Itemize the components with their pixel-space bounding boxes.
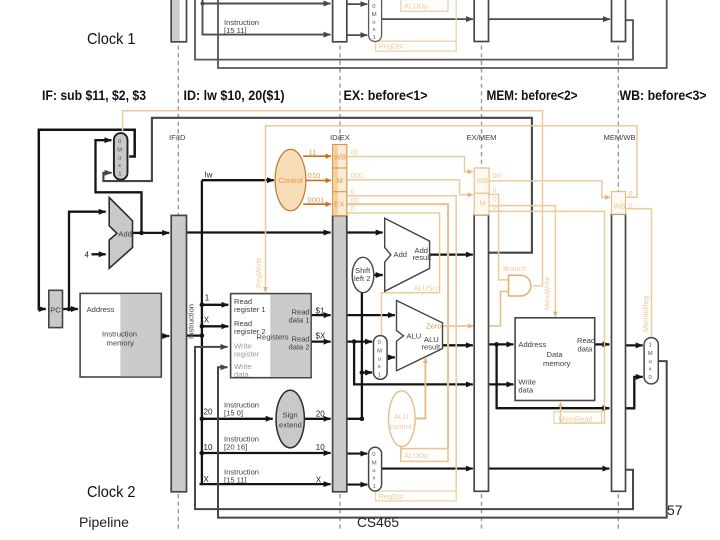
svg-text:data: data bbox=[578, 345, 594, 354]
svg-text:u: u bbox=[372, 468, 375, 474]
svg-text:ID/EX: ID/EX bbox=[330, 133, 350, 142]
register ID/EX bottom piece (upper) bbox=[333, 0, 347, 42]
wire: instruction [20-16] to ID/EX (upper) bbox=[202, 3, 331, 5]
svg-text:Add: Add bbox=[118, 229, 132, 238]
wire: read data 1 from ID/EX to ALU bbox=[347, 314, 395, 316]
wire: PCSrc from AND gate to PCSrc mux select bbox=[123, 111, 543, 286]
wire: MemRead control to data memory bottom bbox=[489, 211, 604, 423]
register file bbox=[231, 294, 312, 379]
shift left 2 oval bbox=[352, 257, 374, 292]
node: Add output junction bbox=[139, 231, 144, 236]
svg-text:Instruction: Instruction bbox=[187, 304, 196, 339]
wire: Branch control from EX/MEM to AND gate bbox=[489, 194, 509, 280]
wire: Control to ID/EX EX bbox=[303, 203, 331, 205]
svg-text:X: X bbox=[204, 315, 210, 324]
svg-text:Clock 1: Clock 1 bbox=[87, 31, 136, 48]
node: imm junction bbox=[360, 417, 365, 422]
wire: constant 4 into Add bbox=[92, 253, 106, 255]
svg-text:[15 0]: [15 0] bbox=[224, 409, 243, 418]
wire: PC value up to Add bbox=[69, 212, 106, 309]
svg-text:Address: Address bbox=[518, 340, 546, 349]
mux RegDst (upper) bbox=[369, 0, 382, 42]
svg-text:1: 1 bbox=[378, 373, 381, 379]
wire: instruction bus stub from IF/ID bbox=[187, 334, 202, 336]
svg-text:Branch: Branch bbox=[503, 264, 526, 273]
svg-text:00: 00 bbox=[351, 148, 359, 157]
svg-text:data 1: data 1 bbox=[289, 316, 310, 325]
control cell WB on MEM/WB bbox=[612, 192, 626, 215]
svg-text:x: x bbox=[649, 367, 652, 373]
wire: memory read data to MEM/WB bbox=[595, 343, 610, 345]
data memory bbox=[515, 318, 595, 401]
wire: ALU result from EX/MEM to memory address bbox=[489, 343, 514, 345]
svg-text:M: M bbox=[648, 351, 653, 357]
wire: PC+4 from IF/ID to ID/EX bbox=[187, 231, 331, 233]
svg-text:extend: extend bbox=[279, 421, 302, 430]
svg-text:MEM/WB: MEM/WB bbox=[604, 133, 636, 142]
PCSrc mux bbox=[114, 133, 128, 180]
wire: ALUOp control from ID/EX EX to ALU control bbox=[347, 204, 448, 448]
wire: branch Add result to EX/MEM bbox=[430, 253, 473, 255]
label box MemRead bbox=[554, 412, 602, 424]
wire: EX/MEM to MEM/WB write register number (upper) bbox=[489, 18, 611, 20]
svg-text:Instruction: Instruction bbox=[102, 330, 137, 339]
wire: ID/EX to RegDst mux input 0 bbox=[347, 453, 368, 455]
svg-text:memory: memory bbox=[107, 339, 135, 348]
svg-text:Registers: Registers bbox=[257, 333, 289, 342]
svg-text:PC: PC bbox=[50, 306, 61, 315]
svg-text:1: 1 bbox=[649, 343, 652, 349]
wire: instruction memory output to IF/ID bbox=[161, 335, 169, 337]
wire: instruction [15-11] to ID/EX bbox=[200, 483, 331, 485]
branch Add bbox=[385, 218, 432, 291]
svg-text:EX: before<1>: EX: before<1> bbox=[344, 88, 428, 103]
svg-text:0: 0 bbox=[493, 186, 497, 195]
svg-text:$1: $1 bbox=[316, 307, 325, 316]
svg-text:x: x bbox=[373, 27, 376, 33]
node: junction [20-16] bbox=[200, 451, 205, 456]
wire: MemWrite control to data memory top bbox=[489, 206, 555, 317]
svg-text:1: 1 bbox=[373, 35, 376, 41]
svg-text:RegDst: RegDst bbox=[379, 492, 404, 501]
svg-text:EX: EX bbox=[334, 200, 344, 209]
wire: RegDst control from ID/EX EX to RegDst mux bbox=[347, 196, 456, 491]
wire: MEM/WB read data to MemtoReg mux input 1 bbox=[626, 344, 643, 346]
svg-text:data: data bbox=[518, 386, 534, 395]
wire: ALUOp control label box (upper) bbox=[401, 0, 448, 11]
svg-text:RegWrite: RegWrite bbox=[254, 257, 263, 288]
wire: PC output to instruction memory address bbox=[63, 308, 78, 310]
svg-text:WB: WB bbox=[477, 176, 489, 185]
svg-text:ALU: ALU bbox=[407, 332, 422, 341]
svg-text:20: 20 bbox=[204, 408, 213, 417]
svg-text:u: u bbox=[372, 20, 375, 26]
instruction memory bbox=[80, 293, 161, 377]
svg-text:1: 1 bbox=[118, 172, 121, 178]
svg-text:lw: lw bbox=[205, 171, 213, 180]
wire: instruction bus vertical bbox=[201, 180, 203, 484]
svg-text:u: u bbox=[378, 357, 381, 363]
wire: instruction to read register 2 bbox=[202, 325, 228, 327]
wire: MemtoReg control from MEM/WB to mux select bbox=[626, 209, 652, 337]
register MEM/WB bottom piece (upper) bbox=[612, 0, 626, 42]
wire: ALU control output to ALU bbox=[415, 358, 425, 418]
svg-text:result: result bbox=[422, 343, 441, 352]
wire: write register number return loop to register file bbox=[195, 347, 633, 509]
wire: Control to ID/EX WB bbox=[303, 155, 331, 157]
wire: EX/MEM WB to MEM/WB WB bbox=[489, 181, 610, 197]
ALU control oval bbox=[389, 391, 416, 447]
wire: Control to ID/EX M bbox=[306, 179, 331, 181]
svg-text:data 2: data 2 bbox=[289, 343, 310, 352]
node: junction read register 2 bbox=[200, 324, 205, 329]
ALUSrc mux bbox=[374, 336, 388, 380]
svg-text:$X: $X bbox=[316, 332, 326, 341]
svg-text:0: 0 bbox=[351, 204, 355, 213]
svg-text:control: control bbox=[390, 422, 413, 431]
register bar EX/MEM bbox=[474, 215, 488, 492]
wire: ALUSrc mux output to ALU bbox=[387, 356, 395, 358]
svg-text:[20 16]: [20 16] bbox=[224, 443, 247, 452]
wire: ID/EX to RegDst mux input 1 (upper) bbox=[347, 34, 368, 36]
svg-text:010: 010 bbox=[308, 171, 321, 180]
sign extend oval bbox=[276, 390, 304, 448]
wire: RegDst control label box (upper) bbox=[376, 0, 457, 51]
wire: ID/EX WB to EX/MEM WB bbox=[347, 157, 473, 172]
label box RegDst bbox=[376, 491, 457, 501]
control oval bbox=[275, 149, 306, 210]
svg-text:CS465: CS465 bbox=[357, 515, 399, 530]
wire: write-data return loop (upper) bbox=[218, 0, 667, 68]
label box ALUOp bbox=[401, 449, 448, 462]
svg-text:Zero: Zero bbox=[426, 322, 442, 331]
svg-text:X: X bbox=[204, 475, 210, 484]
register bar ID/EX bbox=[333, 216, 347, 492]
svg-text:000: 000 bbox=[351, 171, 363, 180]
dashed clock line at EX/MEM bbox=[481, 0, 483, 530]
svg-text:data: data bbox=[234, 370, 250, 379]
IF Add bbox=[109, 198, 132, 269]
wire: MEM/WB ALU result to MemtoReg mux input 0 bbox=[626, 377, 643, 408]
wire: RegWrite control from MEM/WB to register file bbox=[266, 126, 638, 292]
wire: instruction to read register 1 bbox=[202, 304, 228, 306]
wire: instruction [20-16] to ID/EX bbox=[200, 452, 331, 454]
svg-text:ALUOp: ALUOp bbox=[404, 451, 428, 460]
svg-text:M: M bbox=[480, 199, 486, 208]
svg-text:Clock 2: Clock 2 bbox=[87, 484, 136, 501]
svg-text:X: X bbox=[316, 476, 322, 485]
node: PC output junction bbox=[67, 307, 72, 312]
wire: store data from EX/MEM to memory write data bbox=[489, 383, 514, 385]
wire: read data 2 down to store path bbox=[354, 342, 473, 385]
wire: shift left 2 output to branch Add bbox=[374, 274, 383, 276]
wire: ALU result to EX/MEM bbox=[443, 344, 473, 346]
dashed clock line at MEM/WB bbox=[617, 0, 619, 530]
svg-text:WB: WB bbox=[614, 202, 626, 211]
register bar IF/ID bbox=[171, 215, 186, 491]
wire: instruction [15-0] to sign extend bbox=[202, 418, 273, 420]
wire: RegDst mux output to EX/MEM bbox=[382, 468, 473, 470]
wire: PCSrc mux output to PC (feedback over the top) bbox=[39, 130, 135, 309]
wire: write-register return loop (upper) bbox=[195, 0, 633, 60]
svg-text:0001: 0001 bbox=[308, 196, 325, 205]
svg-text:result: result bbox=[413, 253, 432, 262]
svg-text:x: x bbox=[118, 163, 121, 169]
svg-text:Data: Data bbox=[547, 350, 564, 359]
svg-text:MemRead: MemRead bbox=[559, 415, 593, 424]
svg-text:1: 1 bbox=[373, 484, 376, 490]
wire: sign extend output to ID/EX bbox=[303, 418, 330, 420]
wire: PC+4 from ID/EX to branch Add bbox=[347, 231, 383, 233]
wire: opcode to Control bbox=[202, 179, 274, 181]
node: bus junction (upper) bbox=[201, 2, 205, 6]
svg-text:memory: memory bbox=[543, 359, 571, 368]
svg-text:10: 10 bbox=[204, 443, 213, 452]
wire: instruction bus vertical (upper) bbox=[202, 0, 204, 35]
wire: Zero flag EX/MEM to AND gate bbox=[489, 292, 510, 327]
svg-text:MemtoReg: MemtoReg bbox=[641, 296, 650, 332]
svg-text:ALUSrc: ALUSrc bbox=[414, 284, 440, 293]
svg-text:ALU: ALU bbox=[394, 412, 408, 421]
svg-text:ALUOp: ALUOp bbox=[404, 2, 428, 11]
wire: read data 2 to ID/EX bbox=[311, 340, 331, 342]
wire: read data 1 to ID/EX bbox=[311, 314, 331, 316]
node: junction read register 1 bbox=[200, 303, 205, 308]
svg-text:register 1: register 1 bbox=[234, 305, 266, 314]
node: instruction bus junction bbox=[200, 333, 205, 338]
node: imm tap junction bbox=[360, 370, 365, 375]
wire: sign-extended imm from ID/EX with up tap bbox=[347, 293, 362, 419]
svg-text:M: M bbox=[372, 461, 377, 467]
svg-text:Address: Address bbox=[87, 305, 115, 314]
svg-text:11: 11 bbox=[309, 148, 317, 157]
svg-text:x: x bbox=[378, 364, 381, 370]
register IF/ID bottom piece (upper, write half shaded) bbox=[171, 0, 186, 42]
control cells WB/M/EX on ID/EX bbox=[333, 145, 347, 216]
wire: ALU result bypass down to MEM/WB bbox=[497, 344, 610, 408]
register EX/MEM bottom piece (upper) bbox=[474, 0, 488, 42]
wire: ID/EX M to EX/MEM M bbox=[347, 180, 473, 195]
svg-text:u: u bbox=[649, 359, 652, 365]
wire: ID/EX to RegDst mux input 0 (upper) bbox=[347, 3, 368, 5]
AND gate bbox=[509, 275, 531, 296]
RegDst mux bbox=[369, 447, 382, 491]
wire: write register number EX/MEM to MEM/WB bbox=[489, 468, 610, 470]
svg-text:left 2: left 2 bbox=[354, 274, 370, 283]
wire: PC+4 up to PCSrc mux input 0 bbox=[96, 140, 142, 234]
svg-text:M: M bbox=[117, 148, 122, 154]
svg-text:ID: lw $10, 20($1): ID: lw $10, 20($1) bbox=[184, 88, 285, 103]
PC register bbox=[49, 290, 63, 327]
svg-text:u: u bbox=[118, 156, 121, 162]
wire: PC+4 into IF/ID bbox=[142, 232, 170, 234]
wire: instruction [15-11] to ID/EX (upper) bbox=[202, 34, 331, 36]
wire: ALUSrc control from ID/EX EX to ALUSrc mux bbox=[347, 213, 440, 335]
svg-text:4: 4 bbox=[85, 251, 90, 260]
svg-text:10: 10 bbox=[316, 443, 325, 452]
wire: branch target from EX/MEM to PCSrc mux input 1 bbox=[103, 118, 532, 253]
svg-text:Control: Control bbox=[278, 176, 303, 185]
svg-text:RegDst: RegDst bbox=[379, 42, 404, 51]
svg-text:M: M bbox=[337, 176, 343, 185]
svg-text:IF: sub $11, $2, $3: IF: sub $11, $2, $3 bbox=[42, 88, 146, 103]
svg-text:Sign: Sign bbox=[283, 411, 298, 420]
ALU bbox=[397, 301, 443, 371]
wire: Add output (PC+4) bbox=[133, 232, 143, 234]
svg-text:00: 00 bbox=[493, 171, 501, 180]
wire: MemtoReg mux output write-back loop bbox=[218, 361, 667, 517]
svg-text:[15 11]: [15 11] bbox=[224, 26, 247, 35]
svg-text:IF/ID: IF/ID bbox=[169, 133, 186, 142]
node: junction [15-0] bbox=[200, 417, 205, 422]
node: ALU result junction bbox=[494, 342, 499, 347]
register bar MEM/WB bbox=[612, 214, 626, 491]
svg-text:WB: before<3>: WB: before<3> bbox=[620, 88, 707, 103]
svg-text:EX/MEM: EX/MEM bbox=[467, 133, 497, 142]
node: read data 2 junction bbox=[352, 339, 357, 344]
svg-text:0: 0 bbox=[493, 203, 497, 212]
svg-text:1: 1 bbox=[205, 294, 210, 303]
wire: Zero flag ALU to EX/MEM bbox=[443, 325, 474, 327]
svg-text:Pipeline: Pipeline bbox=[79, 514, 129, 530]
wire: ID/EX to RegDst mux input 1 bbox=[347, 484, 368, 486]
svg-text:M: M bbox=[372, 12, 377, 18]
svg-text:0: 0 bbox=[629, 202, 633, 211]
svg-text:0: 0 bbox=[629, 189, 633, 198]
svg-text:M: M bbox=[377, 349, 382, 355]
svg-text:MemWrite: MemWrite bbox=[543, 276, 552, 310]
dashed clock line at ID/EX bbox=[339, 0, 341, 530]
svg-text:x: x bbox=[373, 476, 376, 482]
svg-text:WB: WB bbox=[334, 153, 346, 162]
wire: imm tap to ALUSrc mux input 1 bbox=[362, 371, 372, 373]
MemtoReg mux bbox=[644, 338, 658, 384]
svg-text:Add: Add bbox=[394, 250, 408, 259]
wire: RegDst mux output to EX/MEM (upper) bbox=[382, 18, 473, 20]
svg-text:20: 20 bbox=[316, 410, 325, 419]
wire: read data 2 from ID/EX to ALUSrc mux input 0 bbox=[347, 340, 372, 342]
svg-text:register: register bbox=[234, 349, 260, 358]
svg-text:57: 57 bbox=[667, 502, 683, 518]
control cells WB/M on EX/MEM bbox=[474, 168, 489, 215]
svg-text:MEM: before<2>: MEM: before<2> bbox=[487, 88, 578, 103]
dashed clock line at IF/ID bbox=[177, 0, 179, 530]
